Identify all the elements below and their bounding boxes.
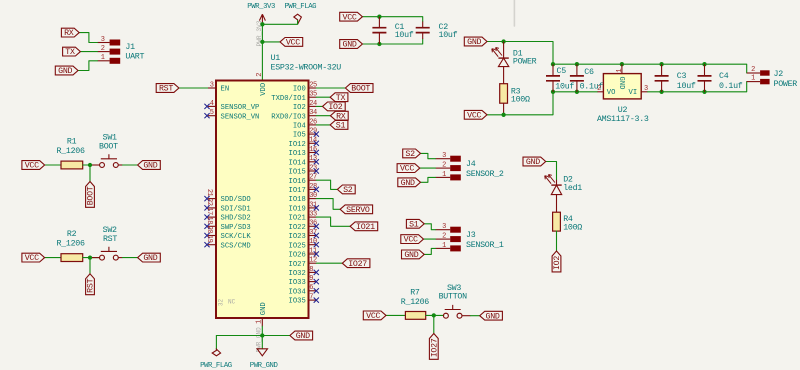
wire R2 to SW2 xyxy=(83,257,99,259)
svg-text:J3: J3 xyxy=(466,231,476,240)
junction C5 top xyxy=(551,62,555,66)
svg-text:S1: S1 xyxy=(409,220,419,229)
svg-text:IO33: IO33 xyxy=(289,279,306,287)
pin SDI/SD1 (22) xyxy=(204,198,250,213)
svg-text:S1: S1 xyxy=(336,122,346,131)
svg-text:SWP/SD3: SWP/SD3 xyxy=(221,224,251,232)
junction C6 bottom xyxy=(575,90,579,94)
svg-text:IO17: IO17 xyxy=(289,187,306,195)
wire junction to RST label xyxy=(89,258,91,274)
svg-text:R7: R7 xyxy=(410,289,420,298)
wire IO4 to S1 xyxy=(316,124,330,126)
label VCC R2 xyxy=(22,253,45,263)
svg-text:BOOT: BOOT xyxy=(87,186,96,205)
svg-text:10uf: 10uf xyxy=(439,30,458,40)
svg-text:3: 3 xyxy=(644,85,648,93)
junction GND net xyxy=(260,333,264,337)
pin TXD0/IO1 (35) xyxy=(271,91,317,103)
label IO21 xyxy=(350,222,378,232)
label VCC J3 xyxy=(401,235,424,245)
svg-text:IO21: IO21 xyxy=(289,215,306,223)
svg-text:GND: GND xyxy=(260,302,268,315)
svg-text:RST: RST xyxy=(103,235,117,244)
label VCC xyxy=(280,38,303,48)
label IO2 vertical xyxy=(552,251,562,272)
svg-text:SDD/SDO: SDD/SDO xyxy=(221,196,251,204)
wire IO18 to SERVO xyxy=(316,199,340,210)
svg-text:VCC: VCC xyxy=(404,236,418,245)
svg-text:IO15: IO15 xyxy=(289,169,306,177)
label IO27 xyxy=(342,259,370,269)
label GND J4 xyxy=(398,178,421,188)
svg-text:PWR_FLAG: PWR_FLAG xyxy=(284,3,316,11)
wire GND to J1 pin 1 xyxy=(78,61,98,71)
wire GND top rail xyxy=(553,64,747,73)
junction C3 top xyxy=(659,62,663,66)
wire IO21 to IO21 label xyxy=(316,217,350,226)
svg-text:2: 2 xyxy=(442,162,446,170)
pin IO5 (29) xyxy=(293,128,319,140)
svg-text:1: 1 xyxy=(442,171,446,179)
svg-text:3: 3 xyxy=(210,81,214,89)
svg-text:GND: GND xyxy=(404,251,418,260)
power symbol PWR_GND xyxy=(250,349,279,370)
svg-text:R_1206: R_1206 xyxy=(56,240,84,249)
svg-text:NC: NC xyxy=(228,299,236,306)
label GND xyxy=(55,66,78,76)
svg-text:SENSOR_VP: SENSOR_VP xyxy=(221,104,260,112)
svg-text:U1: U1 xyxy=(271,54,281,63)
label SERVO xyxy=(340,205,373,215)
svg-text:SENSOR_1: SENSOR_1 xyxy=(466,241,504,250)
wire S1 to J3 pin 3 xyxy=(424,224,435,230)
pin VDD (2) xyxy=(256,73,268,96)
svg-text:S2: S2 xyxy=(405,150,415,159)
label RST vertical xyxy=(86,274,96,295)
label GND D1 xyxy=(464,37,487,47)
pin IO33 (9) xyxy=(289,275,319,287)
svg-text:1: 1 xyxy=(101,54,105,62)
svg-text:VCC: VCC xyxy=(286,39,300,48)
svg-text:GND: GND xyxy=(58,67,72,76)
pin IO22 (36) xyxy=(289,220,319,232)
resistor R7 xyxy=(401,289,429,320)
svg-text:EN: EN xyxy=(221,86,230,94)
label S2 J4 xyxy=(403,149,421,159)
svg-text:RST: RST xyxy=(159,85,173,94)
svg-text:10uf: 10uf xyxy=(395,30,414,40)
svg-text:RST: RST xyxy=(87,278,96,292)
label VCC J4 xyxy=(397,164,420,174)
pin SENSOR_VP (4) xyxy=(204,100,259,112)
svg-text:IO5: IO5 xyxy=(293,132,306,140)
capacitor C3 xyxy=(655,64,696,92)
wire R1 to SW1 xyxy=(83,164,99,166)
pin SHD/SD2 (17) xyxy=(204,207,250,222)
svg-text:VCC: VCC xyxy=(25,254,39,263)
junction C4 top xyxy=(702,62,706,66)
wire GND to D2 xyxy=(546,162,557,180)
label RST xyxy=(156,84,179,94)
junction R7 SW3 xyxy=(432,313,436,317)
wire RST to EN pin xyxy=(179,87,208,89)
svg-text:J4: J4 xyxy=(466,160,476,169)
svg-text:VCC: VCC xyxy=(400,165,414,174)
wire R4 to IO2 label xyxy=(556,231,558,251)
wire GND pin to GND label and PWR symbols xyxy=(261,326,263,349)
svg-text:led1: led1 xyxy=(563,183,582,193)
capacitor C4 xyxy=(698,64,743,92)
svg-text:32: 32 xyxy=(218,299,225,307)
svg-text:3: 3 xyxy=(442,223,446,231)
pin SDD/SDO (21) xyxy=(204,189,250,204)
wire VCC to R1 xyxy=(45,164,61,166)
svg-text:POWER: POWER xyxy=(774,80,798,89)
wire VCC rail C1 C2 xyxy=(362,17,422,22)
pin SCS/CMD (19) xyxy=(204,235,250,250)
svg-text:3: 3 xyxy=(101,36,105,44)
svg-text:2: 2 xyxy=(256,73,264,77)
pin IO4 (26) xyxy=(293,118,317,130)
label VCC D1 xyxy=(464,110,487,120)
pin IO18 (30) xyxy=(289,192,317,204)
wire VCC to J4 pin 2 xyxy=(420,167,436,169)
svg-text:1: 1 xyxy=(442,242,446,250)
pin IO19 (31) xyxy=(289,201,319,213)
junction R2 SW2 xyxy=(88,255,92,259)
svg-text:SCK/CLK: SCK/CLK xyxy=(221,233,252,241)
svg-text:C5: C5 xyxy=(557,67,567,76)
svg-text:R_1206: R_1206 xyxy=(401,298,429,307)
junction at PWR_3V3 xyxy=(260,22,264,26)
pin IO25 (10) xyxy=(289,238,319,250)
svg-text:IO2: IO2 xyxy=(293,104,306,112)
svg-text:SDI/SD1: SDI/SD1 xyxy=(221,206,251,214)
svg-text:GND: GND xyxy=(296,332,310,341)
svg-text:VCC: VCC xyxy=(25,162,39,171)
svg-text:8: 8 xyxy=(309,266,313,274)
label RX xyxy=(61,28,79,38)
svg-text:100Ω: 100Ω xyxy=(511,96,530,105)
pin IO21 (33) xyxy=(289,211,317,223)
capacitor C1 xyxy=(372,17,413,44)
label GND R2 xyxy=(138,253,161,263)
svg-text:IO34: IO34 xyxy=(289,288,306,296)
svg-text:IO27: IO27 xyxy=(348,260,367,269)
svg-text:10uf: 10uf xyxy=(677,81,696,91)
svg-text:TX: TX xyxy=(65,48,75,57)
svg-text:IO16: IO16 xyxy=(289,178,306,186)
wire RX to J1 pin 3 xyxy=(79,33,97,43)
svg-text:22: 22 xyxy=(205,198,213,206)
power symbol PWR_FLAG top xyxy=(284,3,316,24)
svg-text:21: 21 xyxy=(205,189,213,197)
wire junction to IO27 label xyxy=(433,315,435,333)
label S1 J3 xyxy=(406,219,424,229)
svg-text:PWR_FLAG: PWR_FLAG xyxy=(200,362,232,370)
wire GND rail C1 C2 xyxy=(362,39,422,44)
svg-text:1: 1 xyxy=(616,69,624,73)
svg-text:PWR_GND: PWR_GND xyxy=(250,362,279,370)
svg-text:SERVO: SERVO xyxy=(346,206,370,215)
wire IO27 to IO27 label xyxy=(316,262,342,264)
pin IO14 (13) xyxy=(289,155,319,167)
svg-text:3: 3 xyxy=(442,152,446,160)
pin IO12 (14) xyxy=(289,137,319,149)
label IO2 xyxy=(323,102,346,112)
svg-text:IO21: IO21 xyxy=(356,223,375,232)
svg-text:GND: GND xyxy=(343,41,357,50)
svg-text:18: 18 xyxy=(205,217,213,225)
label TX xyxy=(63,47,81,57)
svg-text:BOOT: BOOT xyxy=(99,143,118,152)
svg-text:U2: U2 xyxy=(618,106,628,115)
capacitor C2 xyxy=(416,22,458,41)
svg-text:C4: C4 xyxy=(719,72,729,81)
svg-text:S2: S2 xyxy=(343,186,353,195)
wire GND to J3 pin 1 xyxy=(424,248,435,254)
capacitor C6 xyxy=(570,64,603,92)
pin IO26 (11) xyxy=(289,247,319,259)
svg-text:IO27: IO27 xyxy=(430,338,439,357)
svg-text:IO25: IO25 xyxy=(289,242,306,250)
label GND R1 xyxy=(138,161,161,171)
pin IO0 (25) xyxy=(293,81,317,93)
wire PWR_3V3 to VDD xyxy=(261,24,263,80)
switch SW1 BOOT xyxy=(92,134,123,168)
svg-text:IO19: IO19 xyxy=(289,206,306,214)
svg-text:SHD/SD2: SHD/SD2 xyxy=(221,215,251,223)
wire PWR_3V3 to PWR_FLAG xyxy=(262,20,297,24)
svg-text:UART: UART xyxy=(125,52,144,61)
label VCC R1 xyxy=(22,161,45,171)
wire SW2 to GND xyxy=(123,257,138,259)
svg-text:VCC: VCC xyxy=(343,13,357,22)
svg-text:IO23: IO23 xyxy=(289,233,306,241)
svg-text:2: 2 xyxy=(597,85,601,93)
svg-text:VDD: VDD xyxy=(260,83,268,96)
pin IO2 (24) xyxy=(293,100,317,112)
regulator U2 AMS1117-3.3 xyxy=(597,64,649,124)
label TX xyxy=(330,93,348,103)
pin IO34 (6) xyxy=(289,284,319,296)
op-amp U1 ESP32-WROOM-32U body xyxy=(216,54,341,318)
svg-text:RX: RX xyxy=(64,29,74,38)
svg-text:TXD0/IO1: TXD0/IO1 xyxy=(271,95,306,103)
svg-text:R1: R1 xyxy=(67,138,77,147)
junction C1 top xyxy=(377,15,381,19)
svg-text:GND: GND xyxy=(467,38,481,47)
pin IO32 (8) xyxy=(289,266,319,278)
wire TX to J1 pin 2 xyxy=(80,51,97,53)
pin IO16 (27) xyxy=(289,174,317,186)
svg-text:RXD0/IO3: RXD0/IO3 xyxy=(271,113,306,121)
svg-text:2: 2 xyxy=(101,45,105,53)
wire SW1 to GND xyxy=(123,164,138,166)
junction C3 bottom xyxy=(659,90,663,94)
svg-text:100Ω: 100Ω xyxy=(563,224,582,233)
wire VCC to J3 pin 2 xyxy=(424,238,436,240)
wire VCC to R2 xyxy=(45,257,61,259)
wire VCC to R7 xyxy=(386,314,405,316)
resistor R3 xyxy=(500,84,530,115)
label S1 xyxy=(330,121,348,131)
wire VCC to R3 and rail xyxy=(487,92,553,115)
junction U2 pin1 xyxy=(620,62,624,66)
connector J1 UART xyxy=(98,36,145,64)
svg-text:SENSOR_VN: SENSOR_VN xyxy=(221,113,260,121)
switch SW2 RST xyxy=(92,226,123,260)
junction C5 bottom xyxy=(551,90,555,94)
junction R1 SW1 xyxy=(88,163,92,167)
resistor R4 xyxy=(553,212,583,232)
pin IO17 (28) xyxy=(289,183,319,195)
svg-text:J1: J1 xyxy=(125,43,135,52)
svg-text:SCS/CMD: SCS/CMD xyxy=(221,242,251,250)
wire IO16 to S2 xyxy=(316,180,337,189)
svg-text:GND: GND xyxy=(617,77,625,90)
svg-text:IO2: IO2 xyxy=(553,256,562,270)
wire S2 to J4 pin 3 xyxy=(421,153,436,158)
svg-text:GND: GND xyxy=(486,312,500,321)
pin IO27 (12) xyxy=(289,257,317,269)
label IO27 vertical xyxy=(429,334,439,360)
label GND C1 xyxy=(340,40,363,50)
svg-text:AMS1117-3.3: AMS1117-3.3 xyxy=(597,115,649,124)
svg-text:0.1uf: 0.1uf xyxy=(719,81,743,91)
svg-text:IO26: IO26 xyxy=(289,252,306,260)
wire SW3 to GND xyxy=(471,315,480,317)
pin SWP/SD3 (18) xyxy=(204,217,250,232)
svg-text:R2: R2 xyxy=(67,230,77,239)
svg-text:ESP32-WROOM-32U: ESP32-WROOM-32U xyxy=(271,64,342,73)
svg-text:2: 2 xyxy=(751,66,755,74)
label BOOT vertical xyxy=(86,182,96,208)
wire IO0 to BOOT xyxy=(316,87,345,89)
svg-text:VI: VI xyxy=(629,89,638,97)
svg-text:10uf: 10uf xyxy=(555,81,574,91)
label GND J3 xyxy=(402,250,425,260)
label BOOT xyxy=(345,84,373,94)
pin IO23 (37) xyxy=(289,229,319,241)
svg-text:GND: GND xyxy=(526,158,540,167)
wire VO bottom rail left xyxy=(553,91,598,93)
svg-text:BOOT: BOOT xyxy=(351,85,370,94)
power symbol PWR_FLAG bottom xyxy=(200,349,232,370)
svg-text:VCC: VCC xyxy=(467,111,481,120)
pin GND (1) xyxy=(256,302,269,352)
wire RXD0/IO3 to RX xyxy=(316,115,330,117)
pin IO13 (16) xyxy=(289,146,319,158)
label S2 xyxy=(337,185,355,195)
svg-text:20: 20 xyxy=(205,226,213,234)
wire faint artifact xyxy=(513,0,515,26)
wire VI bottom rail right xyxy=(647,82,746,92)
label RX xyxy=(330,111,348,121)
wire TXD0/IO1 to TX xyxy=(316,96,330,98)
svg-text:R_1206: R_1206 xyxy=(56,147,84,156)
svg-text:J2: J2 xyxy=(774,70,784,79)
label GND D2 xyxy=(523,157,546,167)
svg-text:5: 5 xyxy=(210,109,214,117)
svg-text:IO35: IO35 xyxy=(289,298,306,306)
power symbol PWR_3V3 xyxy=(247,3,275,46)
pin RXD0/IO3 (34) xyxy=(271,109,317,121)
svg-text:9: 9 xyxy=(309,275,313,283)
junction C6 top xyxy=(575,62,579,66)
junction D1 top xyxy=(501,39,505,43)
junction C4 bottom xyxy=(702,90,706,94)
junction C1 bottom xyxy=(377,42,381,46)
svg-text:SENSOR_2: SENSOR_2 xyxy=(466,170,504,179)
resistor R1 xyxy=(56,138,84,169)
svg-text:6: 6 xyxy=(309,284,313,292)
pin IO35 (7) xyxy=(289,294,319,306)
svg-text:IO4: IO4 xyxy=(293,123,306,131)
svg-text:GND: GND xyxy=(143,254,157,263)
pin IO15 (23) xyxy=(289,164,319,176)
label VCC R7 xyxy=(363,311,386,321)
junction VCC tap xyxy=(260,40,264,44)
svg-text:IO13: IO13 xyxy=(289,150,306,158)
wire GND to J4 pin 1 xyxy=(421,177,436,182)
pin EN (3) xyxy=(208,81,229,93)
svg-text:IO18: IO18 xyxy=(289,196,306,204)
svg-text:1: 1 xyxy=(751,74,755,82)
svg-text:17: 17 xyxy=(205,207,213,215)
wire VCC tap xyxy=(262,41,280,43)
svg-text:IO27: IO27 xyxy=(289,261,306,269)
junction R3 bottom xyxy=(501,113,505,117)
switch SW3 BUTTON xyxy=(439,284,471,318)
resistor R2 xyxy=(56,230,84,262)
svg-text:C3: C3 xyxy=(677,72,687,81)
connector J4 SENSOR_2 xyxy=(436,152,504,180)
svg-text:7: 7 xyxy=(309,294,313,302)
svg-text:VCC: VCC xyxy=(366,312,380,321)
svg-text:C6: C6 xyxy=(584,68,594,77)
connector J3 SENSOR_1 xyxy=(436,223,504,251)
wire GND to D1 and rail xyxy=(487,42,553,65)
svg-text:4: 4 xyxy=(210,100,214,108)
pin SCK/CLK (20) xyxy=(204,226,251,241)
connector J2 POWER xyxy=(751,66,797,89)
label GND bottom xyxy=(290,331,313,341)
svg-text:IO12: IO12 xyxy=(289,141,306,149)
svg-text:1: 1 xyxy=(256,320,264,324)
svg-text:VO: VO xyxy=(607,89,616,97)
label VCC C1 xyxy=(340,12,363,22)
svg-text:SW2: SW2 xyxy=(103,226,117,235)
diode D1 POWER xyxy=(492,42,537,84)
svg-text:IO0: IO0 xyxy=(293,86,306,94)
diode D2 led1 xyxy=(545,175,583,213)
svg-text:IO2: IO2 xyxy=(328,103,342,112)
wire IO2 to IO2 label xyxy=(316,105,322,107)
capacitor C5 xyxy=(546,64,574,92)
wire R7 to SW3 xyxy=(426,314,444,316)
svg-text:IO32: IO32 xyxy=(289,270,306,278)
svg-text:PWR_3V3: PWR_3V3 xyxy=(247,3,275,11)
svg-text:BUTTON: BUTTON xyxy=(439,292,467,301)
svg-text:19: 19 xyxy=(205,235,213,243)
svg-text:POWER: POWER xyxy=(513,58,537,67)
svg-text:GND: GND xyxy=(401,179,415,188)
svg-text:IO14: IO14 xyxy=(289,159,306,167)
label GND R7 xyxy=(480,311,503,321)
svg-text:2: 2 xyxy=(442,233,446,241)
svg-text:GND: GND xyxy=(143,162,157,171)
